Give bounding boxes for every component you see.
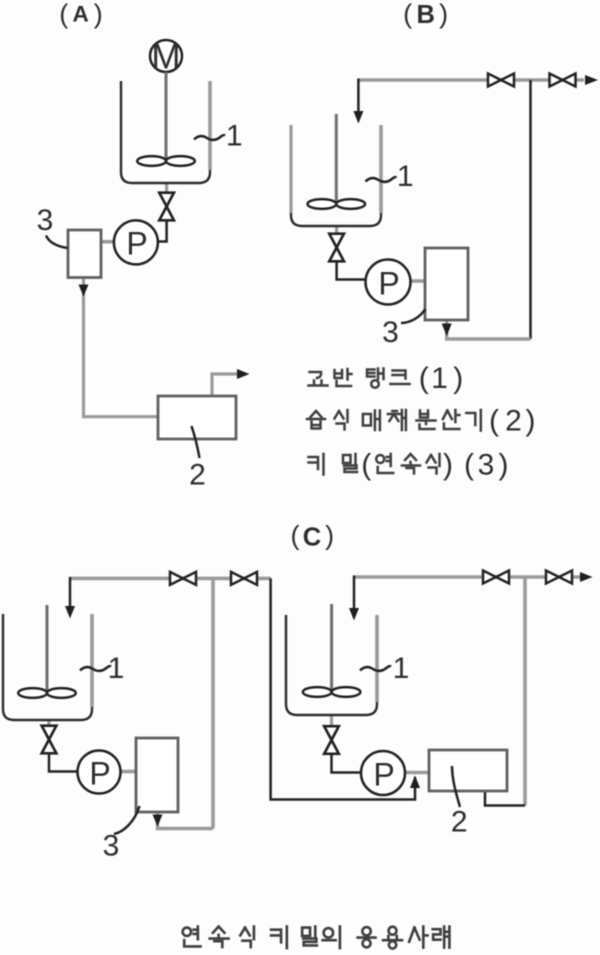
wire top recirculation pipe (B) (358, 78, 584, 82)
arrow right at disperser outlet (A) (237, 369, 250, 379)
impeller B (308, 199, 366, 209)
wire mill 3 bottom line (B) (447, 320, 531, 339)
svg-text:(: ( (361, 449, 371, 482)
wire mill 3 down to disperser 2 (84, 278, 159, 417)
wire valve A to pump A (158, 220, 167, 242)
label (B) (403, 0, 448, 29)
label 1 leader tilde (B) (366, 177, 397, 182)
label 2 leader (A) (192, 426, 200, 458)
tank 1 (B) (291, 125, 381, 226)
wire tank A outlet stub (165, 184, 168, 196)
mill box 3 C-left (136, 738, 178, 812)
svg-text:): ) (439, 0, 448, 29)
arrow down into tank (B) (353, 111, 363, 124)
valve A1 below tank (159, 193, 174, 221)
svg-text:1: 1 (431, 362, 448, 395)
svg-text:M: M (151, 38, 180, 77)
agitator shaft C-right (330, 604, 333, 691)
wire pump to mill 3 C-left (120, 770, 136, 774)
valve C5 on pipe C-right (546, 571, 572, 584)
wire tank C-right outlet stub (330, 715, 333, 728)
svg-text:1: 1 (226, 120, 243, 153)
valve C1 on pipe C-left (170, 572, 196, 585)
svg-text:3: 3 (478, 449, 495, 482)
wire riser C-right (523, 577, 527, 806)
label 2 leader C-right (452, 766, 460, 807)
wire valve B3 to pump B (337, 261, 366, 280)
svg-text:1: 1 (108, 652, 125, 685)
valve C4 on pipe C-right (483, 571, 509, 584)
arrow down into tank C-left (65, 606, 75, 619)
arrow down into tank C-right (349, 608, 359, 621)
wire disperser 2 outlet (212, 374, 239, 396)
svg-text:): ) (526, 405, 536, 438)
svg-text:): ) (453, 362, 463, 395)
arrow down below mill 3 C-left (153, 815, 163, 827)
label 1 leader tilde C-right (360, 666, 391, 671)
impeller A (137, 156, 195, 166)
svg-text:): ) (443, 449, 453, 482)
motor M1 circle (150, 40, 182, 72)
wire tank C-left outlet stub (47, 720, 50, 728)
svg-text:(: ( (464, 449, 474, 482)
impeller C-right (303, 687, 361, 697)
tank 1 C-right (286, 615, 377, 715)
svg-text:2: 2 (505, 405, 522, 438)
valve C3 below tank C-left (42, 726, 57, 754)
svg-text:P: P (126, 226, 147, 262)
label 1 leader tilde (A) (194, 135, 225, 140)
wire pump to disperser 2 C-right (405, 771, 429, 775)
wire valve to pump C-right (332, 754, 362, 773)
svg-text:(: ( (403, 0, 412, 29)
agitator shaft A (165, 72, 168, 160)
wire pump B to mill 3 (411, 279, 426, 283)
label (C) (291, 521, 335, 552)
tank 1 C-left (3, 614, 92, 720)
arrow up into pump discharge C-right (410, 776, 420, 789)
legend line 1: 교반 탱크 (1) (309, 369, 410, 388)
mill box 3 (B) (425, 248, 468, 320)
wire mill 3 bottom line C-left (158, 812, 214, 829)
tank 1 (A) (121, 81, 210, 183)
label 3 leader C-left (114, 806, 140, 834)
wire top pipe C-right (354, 575, 580, 579)
wire riser C-left (211, 578, 215, 828)
valve C6 below tank C-right (324, 726, 339, 754)
valve B3 below tank (329, 234, 344, 262)
wire top pipe C-left (70, 577, 271, 581)
pump P (A) (114, 220, 158, 264)
svg-text:P: P (378, 266, 399, 302)
svg-text:A: A (72, 2, 88, 27)
label 3 leader (A) (46, 236, 68, 249)
pump P C-left (78, 751, 121, 794)
legend line 3: 키 밀(연속식) (3) (309, 454, 440, 475)
agitator shaft C-left (46, 605, 49, 692)
valve C2 on pipe C-left (231, 572, 257, 585)
svg-text:(: ( (59, 0, 68, 29)
label 1 leader tilde C-left (80, 666, 111, 671)
wire tank B outlet stub (335, 226, 338, 236)
wire pipe drop into tank (B) (357, 79, 360, 114)
caption: 연속식 키 밀의 응용사례 (183, 927, 450, 949)
wire pipe drop into tank C-left (69, 577, 72, 608)
disperser box 2 (A) (158, 396, 236, 439)
arrow down below mill 3 (B) (442, 324, 452, 337)
svg-text:2: 2 (451, 806, 468, 839)
valve B2 on top pipe (550, 74, 576, 87)
svg-text:3: 3 (382, 316, 399, 349)
disperser box 2 C-right (429, 750, 507, 791)
pump P (B) (366, 260, 411, 305)
pump P C-right (361, 751, 405, 795)
svg-text:P: P (373, 757, 394, 793)
wire valve to pump C-left (49, 753, 78, 772)
svg-text:3: 3 (37, 204, 54, 237)
label (A) (59, 0, 103, 29)
wire pipe drop into tank C-right (353, 576, 356, 611)
agitator shaft B (335, 114, 338, 203)
wire disperser 2 bottom line C-right (485, 791, 525, 806)
svg-text:3: 3 (103, 830, 120, 863)
impeller C-left (18, 688, 76, 698)
arrow down below mill 3 (A) (79, 285, 89, 297)
arrow right at pipe end C-right (580, 572, 593, 582)
svg-text:): ) (325, 521, 334, 551)
svg-text:C: C (303, 524, 321, 552)
svg-text:2: 2 (189, 459, 206, 492)
svg-text:1: 1 (397, 160, 414, 193)
wire discharge from C-left to C-right (271, 578, 415, 799)
svg-text:(: ( (419, 362, 429, 395)
svg-text:(: ( (489, 405, 499, 438)
arrow right at pipe end (B) (585, 75, 598, 85)
svg-text:(: ( (291, 521, 300, 551)
valve B1 on top pipe (488, 74, 514, 87)
svg-text:1: 1 (393, 652, 410, 685)
wire riser (B) (529, 80, 532, 339)
svg-text:): ) (499, 449, 509, 482)
svg-text:P: P (89, 756, 110, 792)
svg-text:): ) (94, 0, 103, 29)
legend line 2: 습식 매체 분산기 (2) (307, 410, 481, 431)
wire pump A to mill box 3 (101, 240, 114, 244)
mill box 3 (A) (68, 230, 101, 278)
svg-text:B: B (416, 1, 434, 29)
label 3 leader (B) (401, 309, 425, 323)
